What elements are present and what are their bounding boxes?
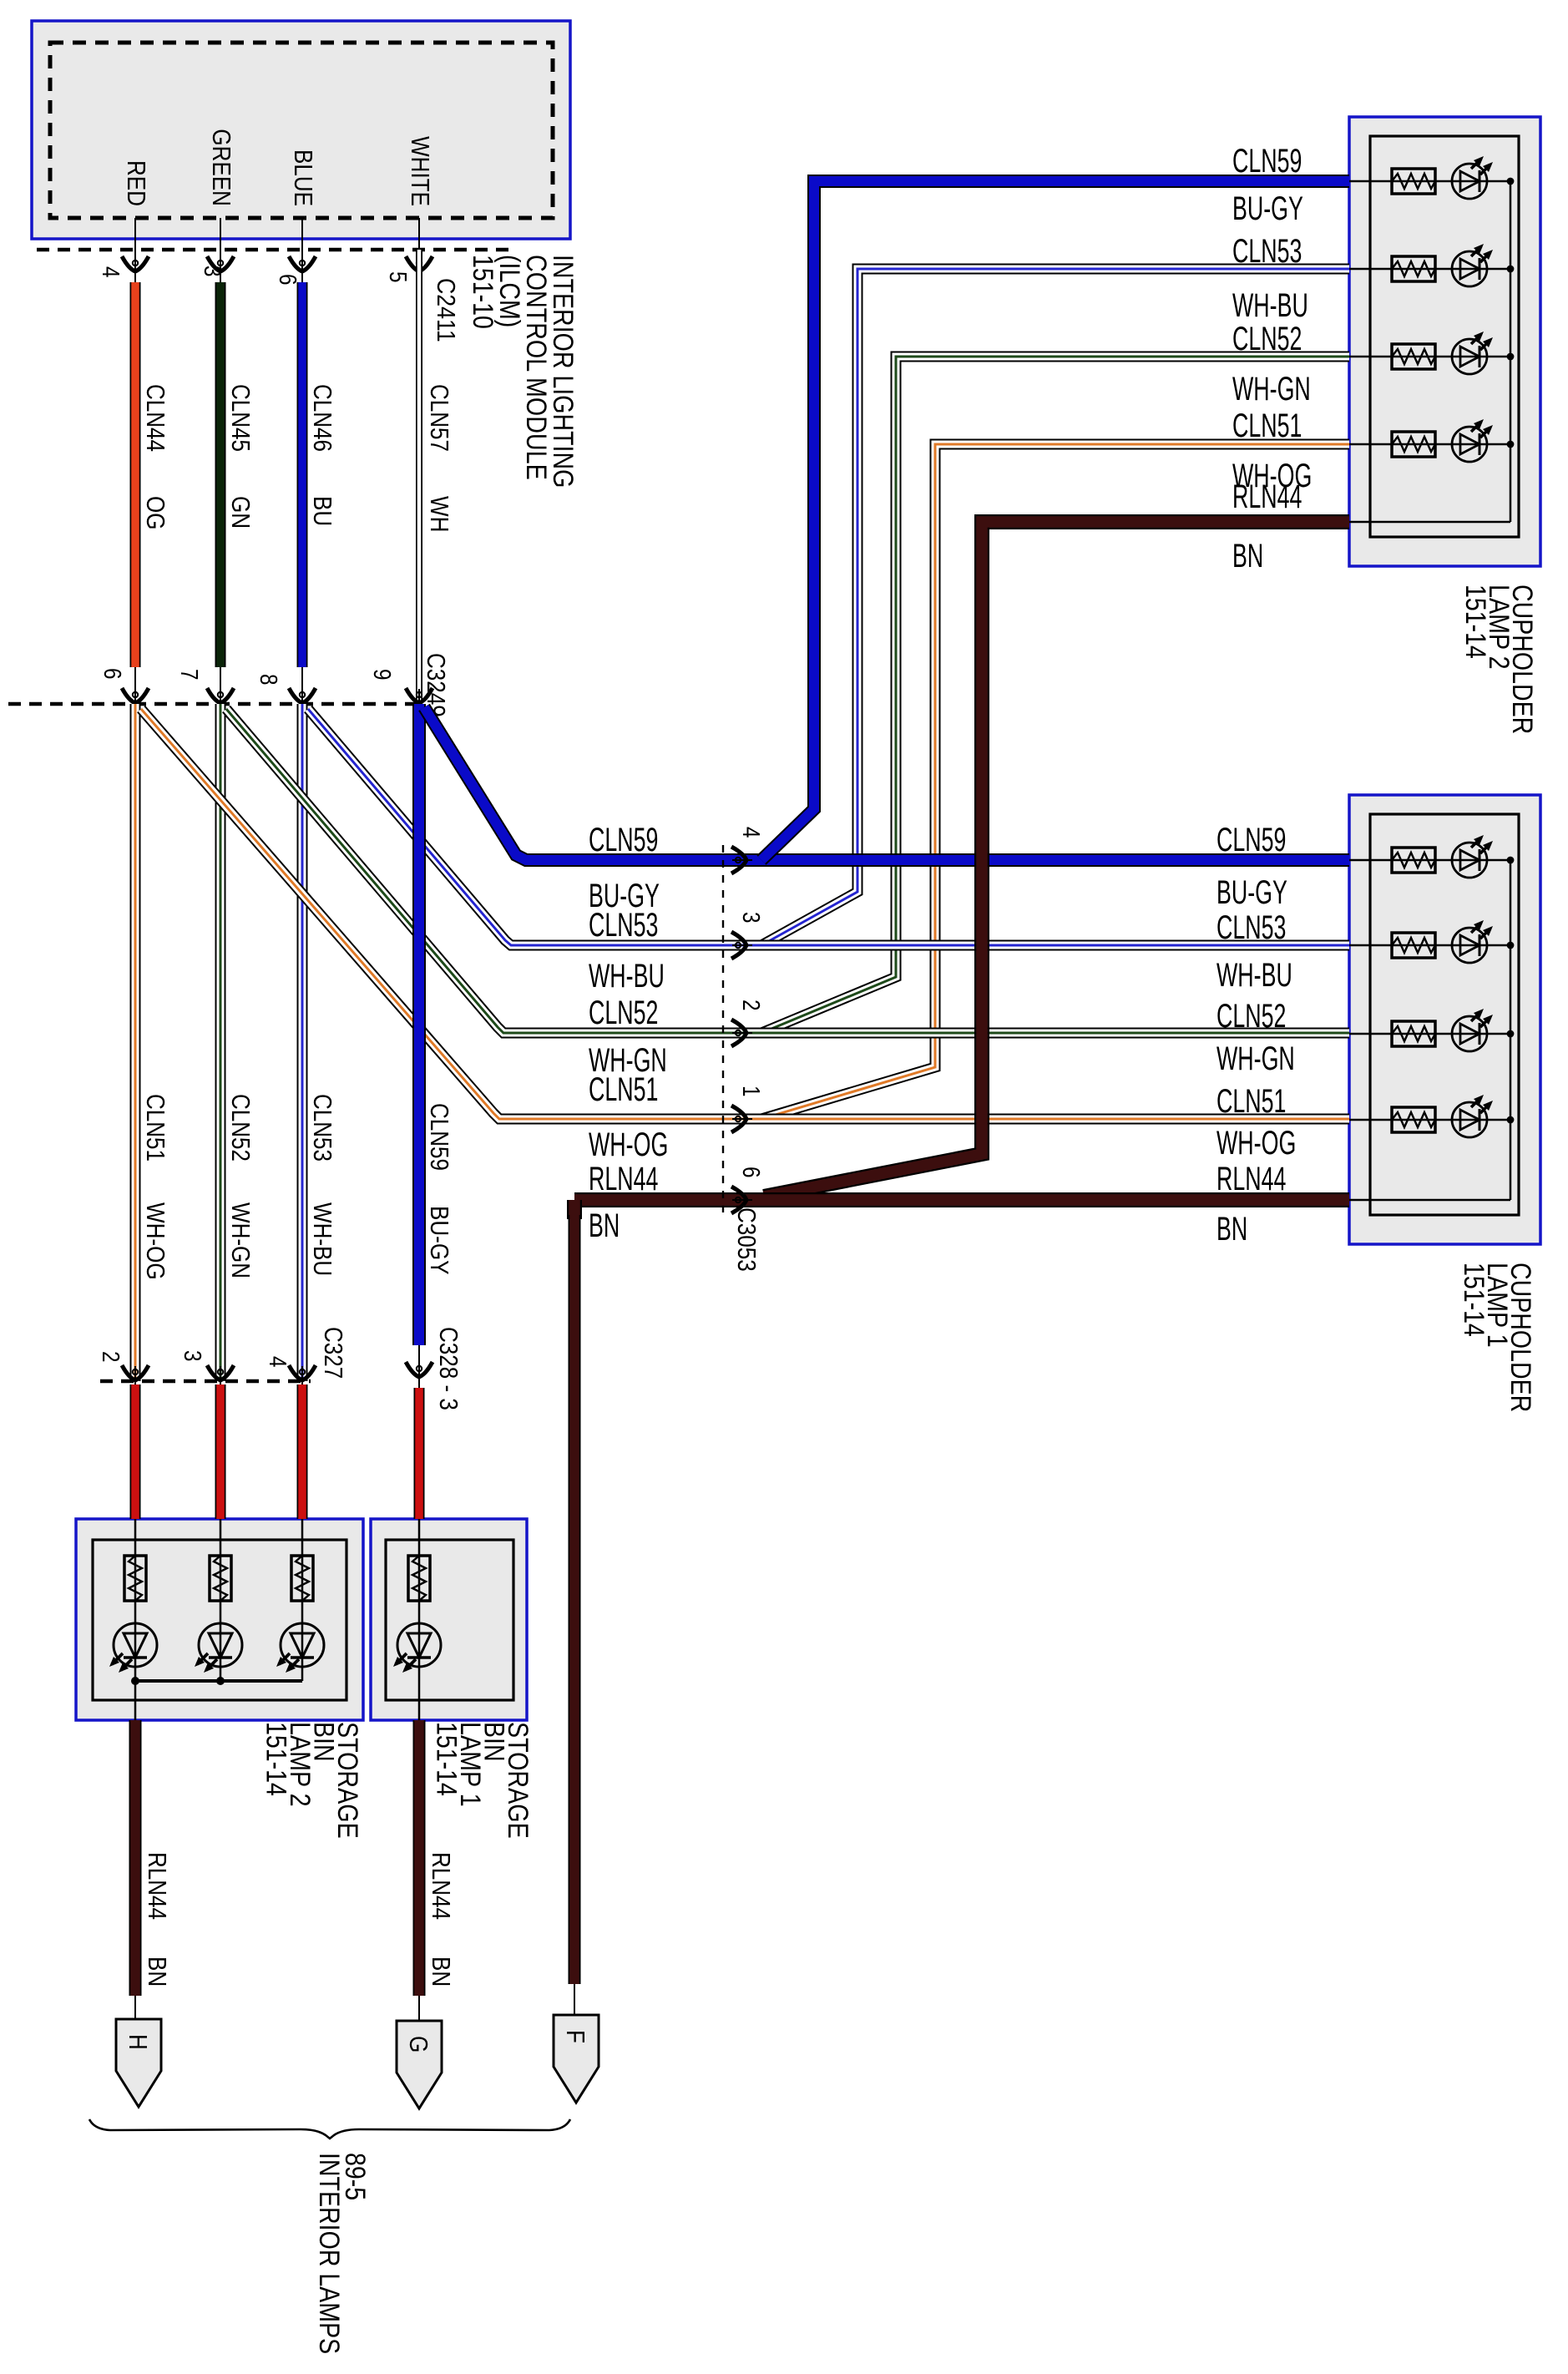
svg-text:151-14: 151-14 <box>1459 585 1491 659</box>
svg-text:CLN53: CLN53 <box>589 907 658 944</box>
svg-text:CLN59: CLN59 <box>425 1103 454 1171</box>
svg-text:RLN44: RLN44 <box>1216 1161 1286 1197</box>
svg-text:WH-GN: WH-GN <box>1232 371 1311 407</box>
svg-text:151-14: 151-14 <box>1458 1263 1490 1337</box>
svg-text:H: H <box>124 2034 153 2050</box>
svg-text:INTERIOR LAMPS: INTERIOR LAMPS <box>313 2153 345 2354</box>
svg-text:CLN59: CLN59 <box>1216 822 1286 858</box>
svg-text:RLN44: RLN44 <box>143 1852 172 1920</box>
svg-text:3: 3 <box>179 1350 205 1362</box>
svg-text:CLN51: CLN51 <box>589 1071 658 1108</box>
svg-text:CLN53: CLN53 <box>308 1094 337 1162</box>
svg-text:4: 4 <box>737 827 764 838</box>
svg-text:6: 6 <box>737 1167 764 1178</box>
svg-text:9: 9 <box>368 669 395 681</box>
svg-text:CLN46: CLN46 <box>308 384 337 452</box>
svg-text:G: G <box>404 2036 433 2053</box>
svg-text:2: 2 <box>737 1000 764 1011</box>
svg-text:CLN52: CLN52 <box>1232 321 1302 357</box>
svg-text:151-10: 151-10 <box>467 255 498 329</box>
svg-text:WH-OG: WH-OG <box>141 1202 170 1280</box>
svg-text:CLN52: CLN52 <box>226 1094 255 1162</box>
svg-text:151-14: 151-14 <box>431 1722 463 1796</box>
svg-text:1: 1 <box>737 1086 764 1097</box>
svg-text:8: 8 <box>255 674 281 686</box>
svg-text:2: 2 <box>97 1351 124 1363</box>
svg-text:WH-GN: WH-GN <box>226 1202 255 1278</box>
svg-text:C3053: C3053 <box>732 1207 761 1272</box>
svg-text:BU-GY: BU-GY <box>1232 190 1303 227</box>
svg-text:CLN51: CLN51 <box>1232 407 1302 444</box>
svg-text:WH-GN: WH-GN <box>1216 1040 1295 1077</box>
svg-text:CLN59: CLN59 <box>589 822 658 858</box>
svg-text:BN: BN <box>143 1956 172 1987</box>
svg-text:WH-OG: WH-OG <box>1216 1125 1296 1162</box>
svg-text:WH: WH <box>425 496 454 532</box>
svg-text:4: 4 <box>97 266 124 278</box>
svg-text:6: 6 <box>274 274 301 286</box>
svg-text:4: 4 <box>264 1356 291 1368</box>
svg-text:6: 6 <box>99 668 125 680</box>
svg-text:BLUE: BLUE <box>289 149 318 206</box>
svg-text:GREEN: GREEN <box>207 129 236 206</box>
svg-text:3: 3 <box>737 912 764 924</box>
svg-text:151-14: 151-14 <box>260 1722 292 1796</box>
svg-text:RLN44: RLN44 <box>589 1161 658 1197</box>
svg-text:WH-OG: WH-OG <box>589 1126 668 1163</box>
svg-text:3: 3 <box>199 266 225 277</box>
svg-text:RLN44: RLN44 <box>1232 478 1302 515</box>
svg-text:CLN52: CLN52 <box>589 995 658 1031</box>
svg-text:BN: BN <box>1216 1211 1247 1248</box>
svg-text:BN: BN <box>1232 538 1263 575</box>
svg-text:CLN51: CLN51 <box>141 1094 170 1162</box>
svg-text:F: F <box>561 2030 590 2043</box>
svg-text:7: 7 <box>175 669 202 681</box>
svg-text:CLN53: CLN53 <box>1216 909 1286 946</box>
svg-text:C327: C327 <box>319 1327 348 1379</box>
svg-text:WHITE: WHITE <box>406 136 435 206</box>
svg-text:CLN59: CLN59 <box>1232 143 1302 180</box>
svg-text:CLN53: CLN53 <box>1232 233 1302 270</box>
svg-text:CLN51: CLN51 <box>1216 1083 1286 1120</box>
svg-text:BU-GY: BU-GY <box>425 1206 454 1275</box>
svg-text:CLN44: CLN44 <box>141 384 170 452</box>
svg-text:CLN45: CLN45 <box>226 384 255 452</box>
svg-text:WH-BU: WH-BU <box>308 1202 337 1276</box>
svg-text:C328 - 3: C328 - 3 <box>434 1327 463 1410</box>
svg-text:WH-BU: WH-BU <box>1216 957 1292 994</box>
svg-text:CLN52: CLN52 <box>1216 998 1286 1035</box>
svg-text:RLN44: RLN44 <box>427 1852 456 1920</box>
svg-text:BN: BN <box>427 1956 456 1987</box>
svg-text:GN: GN <box>226 496 255 529</box>
svg-text:WH-BU: WH-BU <box>1232 287 1308 324</box>
svg-text:BU-GY: BU-GY <box>1216 874 1287 911</box>
svg-text:OG: OG <box>141 496 170 530</box>
svg-text:C2411: C2411 <box>432 278 461 342</box>
svg-text:BN: BN <box>589 1207 620 1244</box>
svg-text:RED: RED <box>122 160 151 206</box>
svg-text:WH-BU: WH-BU <box>589 958 665 995</box>
svg-text:5: 5 <box>384 271 411 283</box>
svg-text:CLN57: CLN57 <box>425 384 454 452</box>
svg-text:BU: BU <box>308 496 337 526</box>
